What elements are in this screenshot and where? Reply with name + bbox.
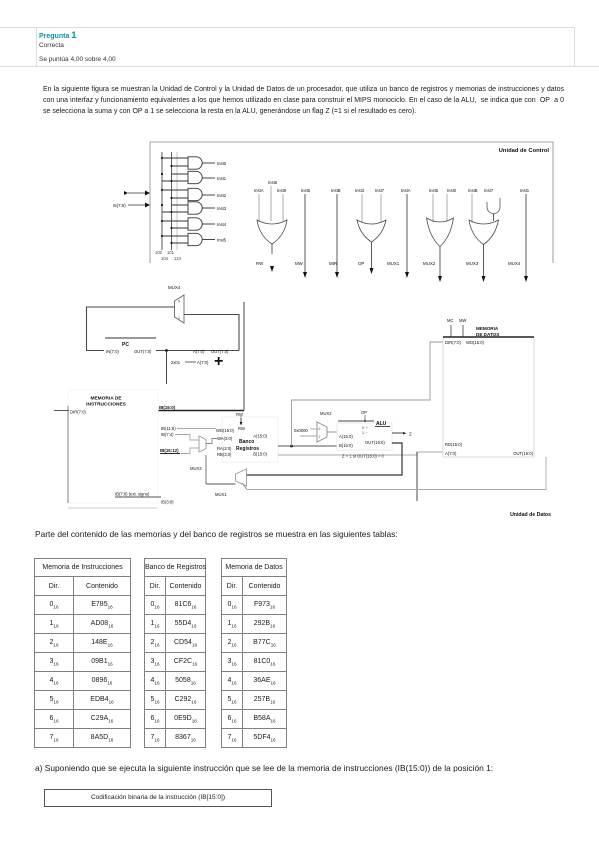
svg-text:2x01: 2x01 bbox=[171, 360, 181, 365]
svg-text:Banco: Banco bbox=[239, 439, 254, 445]
svg-text:RA(3:0): RA(3:0) bbox=[217, 446, 232, 451]
svg-text:RW: RW bbox=[256, 261, 264, 266]
wire mux1 out up bbox=[205, 455, 207, 484]
wire data memory out return bbox=[247, 457, 546, 490]
wire adder out to mux4 bbox=[184, 315, 239, 351]
svg-text:Inst7: Inst7 bbox=[484, 188, 494, 193]
wire RW control vertical bbox=[243, 302, 245, 410]
data memory control wires bbox=[451, 325, 463, 337]
tables intro bbox=[35, 529, 398, 539]
svg-text:MUX3: MUX3 bbox=[190, 466, 202, 471]
svg-text:DIR(7:0): DIR(7:0) bbox=[445, 340, 461, 345]
or-gate OP inputs bbox=[362, 194, 381, 222]
and gate A5 bbox=[162, 233, 215, 245]
and gate A2 bbox=[162, 188, 215, 200]
or-gate MUX2 bbox=[427, 218, 454, 247]
constant 2x01 bbox=[171, 360, 209, 365]
and gate A3 bbox=[162, 202, 215, 214]
ALU OP pin bbox=[361, 410, 367, 421]
svg-text:MEMORIA: MEMORIA bbox=[476, 326, 499, 331]
or-gate MUX2 inputs bbox=[433, 194, 447, 222]
svg-text:A(15:0): A(15:0) bbox=[253, 434, 267, 439]
data memory top edge bbox=[443, 336, 534, 338]
svg-text:0: 0 bbox=[319, 427, 321, 431]
svg-text:MUX4: MUX4 bbox=[508, 261, 521, 266]
mux MUX1 bbox=[236, 469, 247, 486]
svg-text:104: 104 bbox=[161, 256, 169, 261]
svg-text:1: 1 bbox=[178, 316, 180, 320]
or-gate MUX3 inputs bbox=[471, 194, 473, 223]
control unit box bbox=[150, 142, 553, 263]
data memory title bbox=[476, 326, 499, 337]
svg-text:MUX3: MUX3 bbox=[466, 261, 479, 266]
input wire I0 bbox=[128, 203, 150, 208]
svg-text:IB(7:4): IB(7:4) bbox=[161, 432, 174, 437]
svg-text:Inst5: Inst5 bbox=[217, 238, 227, 243]
svg-text:OP: OP bbox=[361, 410, 367, 415]
svg-text:+: + bbox=[214, 353, 223, 370]
wire mux3 out to WA bbox=[207, 439, 218, 444]
ALU mode marks bbox=[362, 426, 368, 435]
wire junction down to instruction memory bbox=[166, 351, 168, 385]
bus junction dots bbox=[161, 157, 173, 244]
svg-text:MUX4: MUX4 bbox=[168, 285, 181, 290]
signal MtR line bbox=[336, 194, 338, 272]
or-gate OP bbox=[357, 220, 386, 242]
svg-text:OUT(15:0): OUT(15:0) bbox=[513, 451, 533, 456]
answer box bbox=[44, 789, 272, 807]
svg-text:Inst2: Inst2 bbox=[217, 193, 227, 198]
wire instruction memory bottom bbox=[68, 507, 157, 509]
intro paragraph bbox=[43, 84, 564, 117]
svg-text:WA(3:0): WA(3:0) bbox=[217, 436, 233, 441]
svg-text:RB(3:0): RB(3:0) bbox=[217, 452, 232, 457]
wire mux2 out to ALU bbox=[327, 431, 337, 433]
svg-text:InstA: InstA bbox=[254, 188, 264, 193]
svg-text:1: −: 1: − bbox=[362, 431, 368, 435]
wire A up and to data memory DIR bbox=[292, 342, 444, 446]
wire ALU top edge bbox=[338, 420, 374, 422]
svg-text:Inst4: Inst4 bbox=[217, 222, 227, 227]
wire MUX2 out bbox=[439, 246, 441, 276]
wire IB(15:12) to mux3 bbox=[181, 448, 199, 454]
svg-text:InstA: InstA bbox=[401, 188, 411, 193]
svg-text:RD(15:0): RD(15:0) bbox=[445, 442, 463, 447]
control output arrowheads bbox=[270, 266, 528, 282]
or-gate RW bbox=[257, 220, 287, 244]
or-gate MUX3 bbox=[469, 220, 499, 245]
svg-text:MUX1: MUX1 bbox=[215, 492, 227, 497]
register PC overline bbox=[105, 337, 156, 339]
wire mux4 out to PC in bbox=[87, 307, 175, 351]
wire Z output bbox=[392, 432, 412, 437]
svg-text:RW: RW bbox=[236, 412, 243, 417]
svg-text:MUX2: MUX2 bbox=[320, 411, 332, 416]
wire ALU out loop bbox=[247, 443, 403, 475]
and gate A1 bbox=[162, 171, 215, 183]
ALU title bbox=[375, 421, 390, 427]
svg-text:MEMORIA DE: MEMORIA DE bbox=[90, 396, 122, 402]
decoder bus line 2 bbox=[171, 152, 173, 250]
svg-text:Inst3: Inst3 bbox=[355, 188, 365, 193]
data memory DIR WD pins bbox=[445, 340, 485, 345]
mux MUX4 bbox=[175, 295, 185, 323]
wire 0x0000 to mux2 bbox=[310, 428, 317, 430]
svg-text:IN(7:0): IN(7:0) bbox=[106, 349, 119, 354]
svg-text:Inst1: Inst1 bbox=[520, 188, 530, 193]
wire OP out bbox=[371, 242, 373, 270]
svg-text:PC: PC bbox=[122, 342, 129, 348]
svg-text:MUX1: MUX1 bbox=[387, 261, 400, 266]
wire vertical right of ALU bbox=[416, 452, 418, 501]
top separator line bbox=[0, 27, 574, 28]
wire loop out bbox=[493, 214, 495, 221]
wire A output bbox=[278, 445, 337, 447]
ALU box bbox=[337, 423, 392, 450]
svg-text:INSTRUCCIONES: INSTRUCCIONES bbox=[86, 402, 127, 408]
svg-text:Inst5: Inst5 bbox=[429, 188, 439, 193]
svg-text:MtR: MtR bbox=[329, 261, 337, 266]
svg-text:OUT(15:0): OUT(15:0) bbox=[365, 440, 385, 445]
decoder output labels bbox=[217, 161, 227, 243]
svg-text:A(7:0): A(7:0) bbox=[197, 360, 209, 365]
decoder bus line 1 bbox=[161, 152, 163, 250]
svg-text:MW: MW bbox=[295, 261, 304, 266]
control output labels bbox=[256, 261, 521, 266]
svg-text:Z: Z bbox=[409, 432, 412, 437]
svg-text:InstB: InstB bbox=[468, 188, 478, 193]
question info box bbox=[36, 27, 575, 66]
bus IB(15:0) bbox=[158, 410, 244, 412]
data memory MW RW pins bbox=[447, 318, 466, 323]
svg-text:IB(15:12): IB(15:12) bbox=[160, 448, 179, 453]
node PC out junction bbox=[165, 349, 168, 352]
decoder bottom labels bbox=[155, 250, 182, 261]
wire mux2 lower input bbox=[300, 435, 317, 437]
input wire I1 bbox=[124, 191, 150, 196]
wire mux1 out bbox=[206, 483, 236, 485]
data memory box bbox=[443, 337, 534, 457]
svg-text:Inst0: Inst0 bbox=[217, 161, 227, 166]
label IB(7:0) ext signo bbox=[115, 492, 174, 505]
svg-text:IB(3:0): IB(3:0) bbox=[161, 500, 174, 505]
svg-text:InstB: InstB bbox=[331, 188, 341, 193]
full width rule bbox=[0, 66, 599, 67]
svg-text:I5(7:6): I5(7:6) bbox=[113, 203, 126, 208]
svg-text:A(7:0): A(7:0) bbox=[193, 349, 205, 354]
svg-text:Unidad de Control: Unidad de Control bbox=[499, 148, 550, 154]
svg-text:WD(15:0): WD(15:0) bbox=[466, 340, 485, 345]
svg-text:Inst7: Inst7 bbox=[375, 188, 385, 193]
svg-text:DIR(7:0): DIR(7:0) bbox=[70, 410, 86, 415]
svg-text:123: 123 bbox=[174, 256, 182, 261]
wire RW out bbox=[271, 244, 273, 254]
svg-text:IB(15:0): IB(15:0) bbox=[159, 405, 176, 410]
wire B output bbox=[278, 452, 443, 455]
svg-text:B(15:0): B(15:0) bbox=[339, 443, 353, 448]
svg-text:Inst0: Inst0 bbox=[447, 188, 457, 193]
wire IB(11:8) to WD bbox=[177, 428, 216, 430]
svg-text:0x0000: 0x0000 bbox=[294, 428, 308, 433]
small or-gate U loop bbox=[487, 198, 500, 214]
svg-text:0: 0 bbox=[178, 300, 180, 304]
six AND gates of decoder bbox=[162, 157, 215, 246]
question a) bbox=[35, 763, 493, 773]
svg-text:RW: RW bbox=[238, 426, 245, 431]
and gate A0 bbox=[162, 157, 215, 169]
wire DIR into instruction memory bbox=[54, 410, 69, 412]
and gate A4 bbox=[162, 218, 215, 230]
mux MUX3 bbox=[199, 436, 206, 452]
decoder bus line 3 bbox=[176, 152, 178, 250]
svg-text:OP: OP bbox=[358, 261, 364, 266]
register bank title bbox=[236, 439, 259, 452]
instruction memory label bbox=[86, 396, 127, 408]
svg-text:MUX2: MUX2 bbox=[423, 261, 436, 266]
wire MUX3 out bbox=[483, 244, 485, 276]
svg-text:A(15:0): A(15:0) bbox=[339, 434, 353, 439]
mux MUX2 bbox=[317, 422, 327, 442]
svg-text:MW: MW bbox=[459, 318, 466, 323]
node A junction bbox=[290, 445, 293, 448]
wire mux1 lower input connector bbox=[242, 483, 247, 490]
svg-text:Unidad de Datos: Unidad de Datos bbox=[510, 512, 551, 518]
svg-text:Inst9: Inst9 bbox=[277, 188, 287, 193]
register bank box bbox=[222, 417, 278, 462]
signal MUX1 line bbox=[406, 194, 408, 272]
svg-text:B(15:0): B(15:0) bbox=[253, 452, 267, 457]
mux MUX2 pins bbox=[319, 427, 321, 439]
or-gate RW inputs bbox=[259, 186, 283, 222]
svg-text:IB(11:8): IB(11:8) bbox=[161, 426, 176, 431]
svg-text:OUT(7:0): OUT(7:0) bbox=[134, 349, 152, 354]
svg-text:0: +: 0: + bbox=[362, 426, 368, 430]
wire IB(7:4) to mux3 bbox=[175, 435, 199, 441]
svg-text:100: 100 bbox=[155, 250, 163, 255]
svg-text:IB(7:0) (ext. signo): IB(7:0) (ext. signo) bbox=[115, 492, 150, 497]
CONTROL OR-GATE ROW bbox=[254, 180, 530, 282]
svg-text:Inst1: Inst1 bbox=[217, 176, 227, 181]
svg-text:Inst6: Inst6 bbox=[268, 180, 278, 185]
svg-text:Z = 1 si OUT(15:0) = 0: Z = 1 si OUT(15:0) = 0 bbox=[342, 454, 385, 459]
svg-text:MC: MC bbox=[447, 318, 454, 323]
svg-text:WD(15:0): WD(15:0) bbox=[216, 428, 235, 433]
svg-text:Inst5: Inst5 bbox=[301, 188, 311, 193]
label IB(15:12) bbox=[160, 448, 180, 454]
svg-text:A(7:0): A(7:0) bbox=[445, 451, 457, 456]
wire PC out bbox=[156, 350, 239, 352]
register bank port labels left bbox=[216, 428, 235, 457]
instruction memory left edge bbox=[67, 406, 69, 503]
svg-text:1: 1 bbox=[319, 435, 321, 439]
signal MUX4 line bbox=[525, 194, 527, 276]
instruction memory box bbox=[68, 390, 158, 503]
svg-text:101: 101 bbox=[167, 250, 175, 255]
wire RW into register bank bbox=[236, 412, 243, 426]
svg-text:Inst3: Inst3 bbox=[217, 206, 227, 211]
signal MW line bbox=[304, 194, 306, 272]
